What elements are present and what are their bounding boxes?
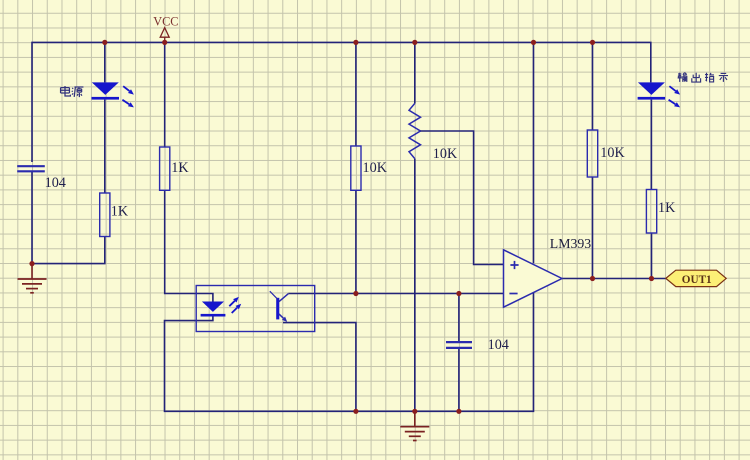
svg-text:1K: 1K	[111, 204, 129, 220]
svg-text:OUT1: OUT1	[682, 274, 712, 286]
svg-text:10K: 10K	[433, 146, 458, 162]
svg-text:VCC: VCC	[153, 15, 178, 29]
svg-text:1K: 1K	[658, 200, 676, 216]
svg-text:LM393: LM393	[550, 236, 591, 251]
svg-text:10K: 10K	[363, 160, 388, 176]
svg-text:1K: 1K	[171, 160, 189, 176]
svg-text:104: 104	[45, 175, 66, 191]
svg-text:10K: 10K	[600, 145, 625, 161]
svg-text:104: 104	[488, 337, 509, 353]
